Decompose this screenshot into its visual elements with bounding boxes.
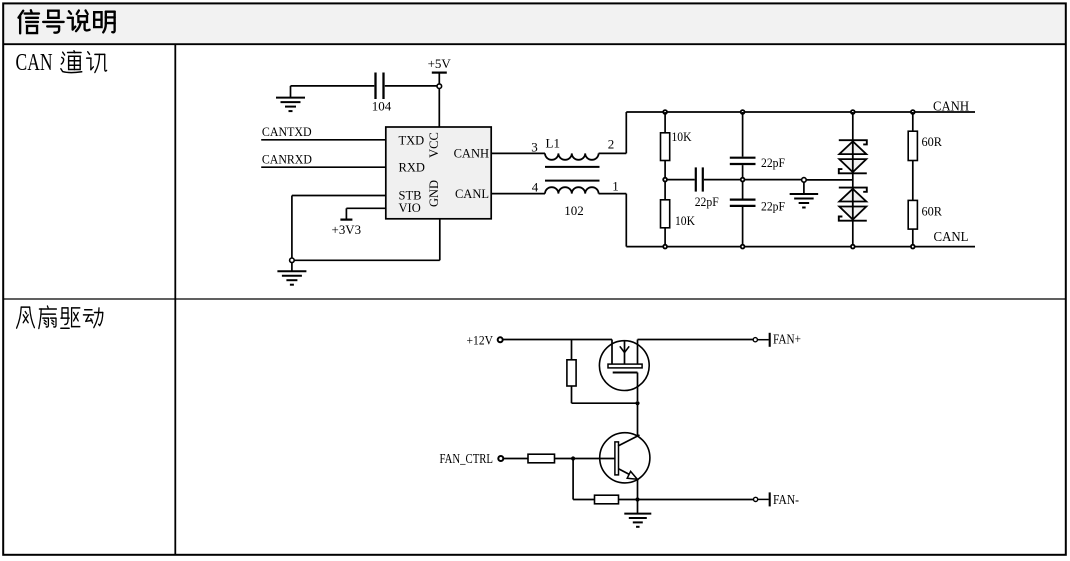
wire ground tap to TVS midpoint <box>806 179 853 181</box>
power +5V <box>428 56 452 84</box>
wire R base to Q2 base <box>555 458 615 460</box>
svg-text:L1: L1 <box>546 136 560 151</box>
port tick FAN- <box>769 492 771 506</box>
wire GND pin down <box>439 219 441 260</box>
wire cap to midpoint <box>742 165 744 177</box>
svg-text:FAN-: FAN- <box>773 492 799 507</box>
svg-text:RXD: RXD <box>399 160 425 174</box>
wire CANH bus <box>626 111 975 113</box>
inductor L1 bottom winding <box>545 187 599 193</box>
svg-text:VCC: VCC <box>427 132 441 158</box>
wire to CANL bus <box>912 229 914 247</box>
wire +5V to VCC pin <box>438 89 440 128</box>
wire STB <box>292 195 386 197</box>
svg-text:22pF: 22pF <box>761 199 785 214</box>
wire VIO <box>346 207 385 209</box>
wire capacitor to ground <box>291 85 375 87</box>
junction CANH/10K <box>663 110 667 114</box>
wire up to CANH bus <box>625 112 627 153</box>
ground (mid rail) <box>790 194 819 208</box>
capacitor 22pF (bottom) <box>730 200 756 206</box>
svg-text:CANRXD: CANRXD <box>262 151 312 166</box>
svg-text:CANH: CANH <box>933 99 969 114</box>
wire down to CANL bus <box>625 194 627 247</box>
wire midpoint to R 10K bottom <box>664 182 666 200</box>
wire CANH to TVS <box>852 112 854 140</box>
wire CANH pin to L1 pin3 <box>491 152 545 154</box>
svg-text:VIO: VIO <box>399 201 421 215</box>
wire to R 60R top <box>912 112 914 131</box>
svg-text:+3V3: +3V3 <box>332 222 362 237</box>
svg-text:+5V: +5V <box>428 56 452 71</box>
svg-text:60R: 60R <box>922 134 943 149</box>
junction CANH/TVS <box>851 110 855 114</box>
wire FAN_CTRL to R base <box>503 458 528 460</box>
svg-text:22pF: 22pF <box>761 155 785 170</box>
junction CANL/10K <box>663 245 667 249</box>
terminal FAN_CTRL <box>498 456 503 461</box>
ground (IC) <box>277 271 306 285</box>
header title 信号说明 <box>18 10 114 33</box>
svg-text:10K: 10K <box>672 129 693 144</box>
svg-text:STB: STB <box>399 188 422 202</box>
wire to C 22pF top <box>742 112 744 157</box>
capacitor 104 <box>376 73 384 100</box>
junction emitter node <box>635 497 639 501</box>
svg-text:2: 2 <box>608 137 615 152</box>
wire to R pull-down <box>573 499 594 501</box>
junction divider midpoint <box>663 178 667 182</box>
wire CANL bus <box>626 246 975 248</box>
inductor L1 core lines <box>545 167 600 181</box>
svg-text:102: 102 <box>564 203 584 218</box>
svg-text:CANH: CANH <box>454 147 489 161</box>
IC U1 CAN transceiver body <box>386 127 491 219</box>
wire midpoint to C 22pF <box>667 179 695 181</box>
svg-text:104: 104 <box>372 99 392 114</box>
node GND junction <box>290 258 295 263</box>
junction CANL/caps <box>741 245 745 249</box>
resistor 60R (bottom) <box>908 200 917 229</box>
terminal +12V <box>498 337 503 342</box>
svg-text:10K: 10K <box>675 213 696 228</box>
wire GND net horizontal <box>294 259 440 261</box>
node +5V junction <box>437 84 442 89</box>
svg-text:3: 3 <box>531 139 538 154</box>
wire L1 pin1 out <box>599 193 627 195</box>
svg-text:FAN_CTRL: FAN_CTRL <box>440 451 494 466</box>
wire FAN- tick <box>758 498 769 500</box>
terminal FAN- circle <box>754 497 758 501</box>
wire MOSFET to FAN+ <box>638 339 754 341</box>
diode TVS pair D3/D4 (lower) <box>839 188 867 221</box>
wire to CANL bus <box>742 207 744 247</box>
junction CANL/TVS <box>851 245 855 249</box>
wire ground stub <box>291 263 293 271</box>
ground (decoupling cap) <box>276 98 305 112</box>
resistor base series <box>528 454 555 463</box>
row label CAN 通讯 <box>16 50 107 76</box>
junction CANH/caps <box>741 110 745 114</box>
wire resistor to gate node <box>571 386 573 403</box>
wire 10K to midpoint <box>664 161 666 178</box>
svg-text:22pF: 22pF <box>695 194 719 209</box>
wire L1 pin2 out <box>599 152 627 154</box>
wire emitter to ground <box>637 500 639 514</box>
resistor gate pull-up <box>567 360 576 386</box>
svg-text:60R: 60R <box>922 204 943 219</box>
junction CANH/60R <box>911 110 915 114</box>
wire ground stub <box>803 182 805 193</box>
transistor Q1 P-MOSFET <box>599 340 649 402</box>
wire +3V3 stub <box>345 208 347 219</box>
wire +12V rail <box>503 339 613 341</box>
wire ground stub <box>290 86 292 97</box>
resistor 10K (bottom) <box>661 200 670 228</box>
diode TVS pair D1/D2 (upper) <box>839 140 867 173</box>
transistor Q2 NPN <box>600 433 650 500</box>
wire TVS to CANL bus <box>852 221 854 247</box>
resistor 60R (top) <box>908 131 917 160</box>
ground (emitter) <box>624 514 651 527</box>
junction base node <box>571 456 575 460</box>
port tick FAN+ <box>769 333 771 347</box>
wire TVS middle <box>852 173 854 187</box>
wire midpoint to ground tap <box>745 179 802 181</box>
svg-text:TXD: TXD <box>399 133 425 147</box>
wire gate node horizontal <box>572 402 638 404</box>
wire STB down <box>291 196 293 258</box>
svg-text:1: 1 <box>612 179 619 194</box>
capacitor 22pF (series) <box>696 167 703 191</box>
wire CANL pin to L1 pin4 <box>491 193 545 195</box>
svg-text:GND: GND <box>427 180 441 207</box>
wire capacitor C to +5V node <box>385 85 437 87</box>
svg-text:CANL: CANL <box>455 187 489 201</box>
wire midpoint to C 22pF bottom <box>742 182 744 199</box>
wire to R 10K top <box>664 112 666 133</box>
svg-text:CAN: CAN <box>16 50 53 76</box>
terminal FAN+ circle <box>753 338 757 342</box>
power +3V3 <box>332 220 362 238</box>
node ground tap <box>802 178 807 183</box>
wire CANTXD to TXD <box>261 139 386 141</box>
junction gate node <box>635 401 639 405</box>
svg-text:CANL: CANL <box>934 230 969 245</box>
wire R pull-down to emitter node <box>619 499 638 501</box>
svg-text:FAN+: FAN+ <box>773 332 801 347</box>
svg-text:CANTXD: CANTXD <box>262 124 312 139</box>
capacitor 22pF (top) <box>730 158 756 164</box>
svg-text:+12V: +12V <box>467 332 494 347</box>
wire base node down <box>572 459 574 500</box>
wire C 22pF to cap branch <box>704 179 741 181</box>
wire gate node to Q2 collector <box>637 403 639 436</box>
resistor 10K (top) <box>661 133 670 161</box>
resistor base pull-down <box>595 495 619 504</box>
wire FAN+ tick <box>757 339 768 341</box>
svg-text:4: 4 <box>532 180 539 195</box>
wire 60R to 60R <box>912 161 914 201</box>
row label 风扇驱动 <box>17 306 103 329</box>
wire +12V to R gate pull-up <box>571 340 573 360</box>
junction cap midpoint <box>741 178 745 182</box>
wire emitter node to FAN- <box>638 499 754 501</box>
inductor L1 top winding <box>545 153 599 159</box>
wire CANRXD to RXD <box>261 166 386 168</box>
junction CANL/60R <box>911 245 915 249</box>
wire to CANL bus <box>664 228 666 247</box>
